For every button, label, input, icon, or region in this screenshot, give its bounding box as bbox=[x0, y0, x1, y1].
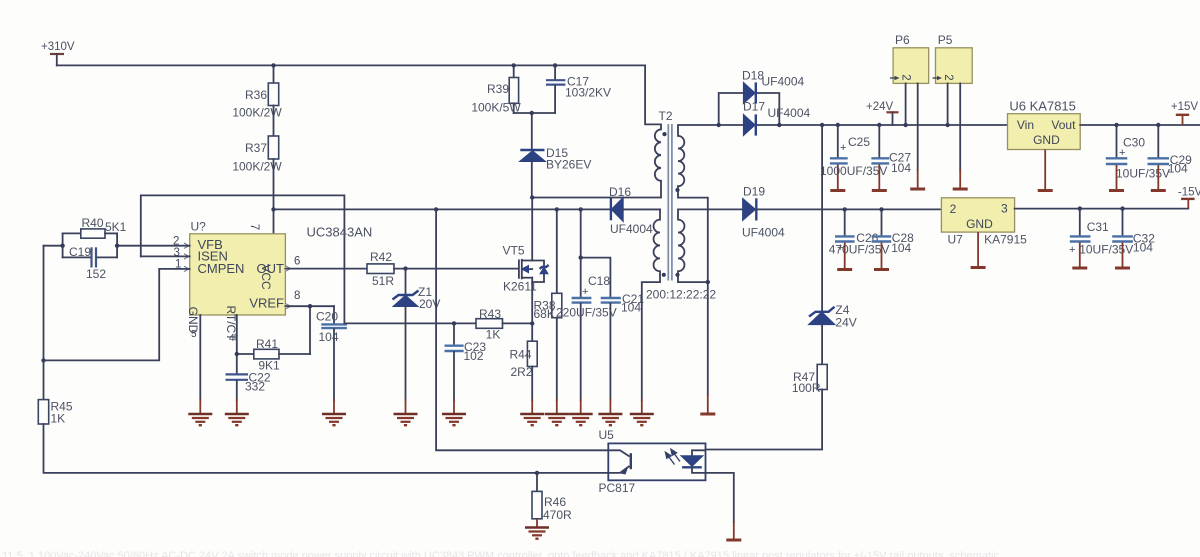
connector P6 bbox=[890, 33, 929, 188]
diode D19 UF4004 bbox=[742, 185, 785, 240]
node rail2-C26 bbox=[843, 207, 847, 211]
svg-text:2: 2 bbox=[942, 74, 954, 80]
wire VT5 source down bbox=[531, 282, 533, 323]
svg-text:R42: R42 bbox=[370, 250, 392, 264]
capacitor C25 electrolytic bbox=[820, 125, 887, 189]
resistor R39 bbox=[471, 65, 521, 114]
node drain-D15 bbox=[530, 195, 534, 199]
svg-text:68K: 68K bbox=[534, 307, 555, 321]
svg-text:C18: C18 bbox=[588, 274, 610, 288]
svg-text:R46: R46 bbox=[544, 495, 566, 509]
svg-text:KA7915: KA7915 bbox=[984, 233, 1027, 247]
wire Z4 to R47 bbox=[821, 325, 823, 365]
svg-text:+24V: +24V bbox=[866, 101, 894, 113]
wire CMPEN pin bbox=[44, 269, 190, 361]
wire VCC rail to D16 bbox=[274, 208, 661, 210]
ground C21 bbox=[598, 414, 622, 425]
svg-text:+15V: +15V bbox=[1171, 101, 1199, 113]
wire left bus bbox=[43, 246, 45, 400]
polarity dot primary bbox=[662, 132, 666, 136]
resistor R41 bbox=[237, 337, 310, 373]
node source-R44 bbox=[530, 321, 534, 325]
node CMPEN-bus bbox=[41, 358, 45, 362]
svg-text:CMPEN: CMPEN bbox=[198, 261, 245, 276]
capacitor C22 bbox=[226, 371, 271, 414]
ground C23 bbox=[442, 414, 466, 425]
svg-text:D16: D16 bbox=[609, 185, 631, 199]
svg-text:7: 7 bbox=[248, 224, 260, 230]
svg-text:100R: 100R bbox=[792, 381, 821, 395]
svg-text:104: 104 bbox=[891, 241, 911, 255]
svg-text:R43: R43 bbox=[479, 307, 501, 321]
wire U5 pin3 to ground bbox=[706, 473, 734, 522]
wire U6 GND lead bbox=[1044, 150, 1046, 190]
svg-text:R41: R41 bbox=[256, 337, 278, 351]
wire ISEN feedback line bbox=[141, 195, 345, 323]
wire OUT pin bbox=[285, 268, 367, 270]
svg-text:102: 102 bbox=[464, 349, 484, 363]
zener Z4 24V bbox=[809, 303, 857, 330]
svg-text:C20: C20 bbox=[316, 310, 338, 324]
wire U5 pin2 line bbox=[607, 472, 609, 474]
svg-text:Vout: Vout bbox=[1051, 118, 1076, 132]
wire Z1 cathode lead bbox=[405, 269, 407, 295]
ground C18 bbox=[569, 414, 593, 425]
diode D17 UF4004 bbox=[743, 99, 811, 135]
winding secondary right-top bbox=[678, 136, 684, 186]
wire R36-R37 bbox=[273, 106, 275, 137]
wire primary top lead bbox=[645, 65, 661, 129]
opto U5 PC817 box bbox=[599, 428, 706, 495]
svg-text:R37: R37 bbox=[245, 141, 267, 155]
capacitor C17 bbox=[546, 65, 611, 113]
wire R36 top lead bbox=[273, 65, 275, 83]
svg-text:1K: 1K bbox=[51, 412, 66, 426]
svg-text:2: 2 bbox=[900, 74, 912, 80]
svg-text:VT5: VT5 bbox=[503, 244, 525, 258]
node network left bbox=[60, 244, 64, 248]
capacitor C18 electrolytic bbox=[556, 209, 617, 413]
svg-text:200:12:22:22: 200:12:22:22 bbox=[646, 288, 716, 302]
wire R47 to U5 pin4 bbox=[706, 390, 823, 450]
wire +310V rail bbox=[57, 64, 645, 66]
node rail-C31 bbox=[1078, 206, 1082, 210]
node rail-P5 bbox=[945, 123, 949, 127]
svg-text:5K1: 5K1 bbox=[105, 220, 127, 234]
node RT/CT-R41 bbox=[235, 352, 239, 356]
svg-text:R40: R40 bbox=[82, 216, 104, 230]
node rail-C17 bbox=[553, 63, 557, 67]
node VREF bbox=[308, 304, 312, 308]
wire D15 cathode lead bbox=[531, 113, 533, 149]
wire VCC to U5 pin1 bbox=[436, 209, 608, 450]
svg-text:VCC: VCC bbox=[259, 264, 273, 290]
svg-text:10UF/35V: 10UF/35V bbox=[1079, 243, 1133, 257]
wire common down to bar bbox=[707, 282, 709, 395]
wire network left vertical bbox=[62, 233, 64, 257]
wire D19 line to U7 bbox=[756, 208, 941, 210]
regulator U6 KA7815 bbox=[1008, 99, 1081, 150]
svg-text:8: 8 bbox=[294, 290, 300, 302]
terminal common bar bbox=[700, 394, 715, 414]
wire D18 branch bbox=[719, 93, 780, 125]
capacitor C31 electrolytic bbox=[1069, 209, 1133, 267]
terminal C29 bar bbox=[1151, 189, 1166, 192]
svg-text:2: 2 bbox=[950, 202, 957, 216]
net label +310V bbox=[41, 41, 75, 65]
svg-text:4: 4 bbox=[229, 333, 235, 344]
wire R37 to VCC node bbox=[273, 159, 275, 234]
svg-text:UF4004: UF4004 bbox=[610, 222, 653, 236]
svg-text:GND: GND bbox=[966, 217, 993, 231]
svg-text:GND: GND bbox=[1033, 133, 1060, 147]
svg-text:C19: C19 bbox=[69, 245, 91, 259]
capacitor C27 bbox=[871, 125, 911, 189]
capacitor C19 bbox=[63, 245, 118, 281]
wire bottom-left bottom lead bbox=[642, 271, 660, 400]
winding bottom-right bbox=[678, 220, 684, 272]
op-amp U? UC3843AN box bbox=[190, 220, 373, 316]
svg-text:104: 104 bbox=[1168, 162, 1188, 176]
resistor R44 bbox=[510, 323, 538, 413]
terminal U6 GND bar bbox=[1038, 189, 1053, 192]
node D18 left bbox=[717, 123, 721, 127]
wire ISEN pin bbox=[141, 255, 190, 257]
svg-text:PC817: PC817 bbox=[599, 481, 636, 495]
svg-text:152: 152 bbox=[86, 267, 106, 281]
svg-text:104: 104 bbox=[891, 161, 911, 175]
svg-text:5: 5 bbox=[191, 329, 197, 340]
resistor R46 bbox=[532, 473, 572, 527]
resistor R45 bbox=[38, 400, 73, 426]
svg-text:100K/2W: 100K/2W bbox=[232, 160, 282, 174]
wire R45 to bottom line bbox=[44, 424, 609, 473]
svg-text:P5: P5 bbox=[938, 33, 953, 47]
capacitor C32 bbox=[1112, 209, 1155, 267]
svg-text:UC3843AN: UC3843AN bbox=[307, 225, 373, 240]
diode D18 UF4004 bbox=[742, 69, 805, 104]
node rail-C30 bbox=[1114, 123, 1118, 127]
svg-text:R44: R44 bbox=[510, 348, 532, 362]
svg-text:R39: R39 bbox=[487, 82, 509, 96]
capacitor C21 bbox=[581, 258, 645, 413]
core T2 bbox=[668, 124, 672, 281]
wire sec-top lead up bbox=[678, 125, 838, 136]
wire D15 anode to drain node bbox=[531, 162, 533, 198]
polarity dot bottom-right bbox=[675, 273, 679, 277]
resistor R42 bbox=[367, 250, 394, 288]
wire VFB pin bbox=[117, 245, 190, 247]
diode D16 UF4004 bbox=[609, 185, 653, 236]
node R46 bbox=[535, 471, 539, 475]
wire network right vertical bbox=[116, 233, 118, 257]
svg-text:C30: C30 bbox=[1123, 136, 1145, 150]
wire R42 to gate bbox=[394, 268, 518, 270]
polarity dot sec-top bbox=[675, 188, 679, 192]
connector P5 bbox=[933, 33, 973, 188]
svg-text:11.5. 1 100Vac-240Vac 50/60Hz: 11.5. 1 100Vac-240Vac 50/60Hz AC-DC 24V … bbox=[2, 550, 999, 557]
wire bus stub to network bbox=[44, 245, 63, 247]
node VCC-U5 vertical bbox=[434, 207, 438, 211]
terminal P6 bar bbox=[910, 188, 925, 191]
zener Z1 20V bbox=[393, 285, 441, 413]
wire +15V rail bbox=[1080, 124, 1200, 126]
wire sec-top bottom lead to common bbox=[678, 186, 708, 282]
polarity dot bottom-left bbox=[662, 273, 666, 277]
node rail-P6 bbox=[903, 123, 907, 127]
wire Z4 lead from +24V bbox=[821, 125, 823, 312]
node rail2-C28 bbox=[879, 207, 883, 211]
svg-text:1K: 1K bbox=[486, 328, 501, 342]
opto transistor side bbox=[608, 450, 631, 474]
svg-text:10UF/35V: 10UF/35V bbox=[1116, 167, 1170, 181]
ground R46 bbox=[525, 528, 549, 539]
terminal C30 bar bbox=[1109, 189, 1124, 192]
node rail-C25 bbox=[836, 123, 840, 127]
ground R38 bbox=[545, 414, 569, 425]
capacitor C29 bbox=[1148, 125, 1193, 189]
svg-text:2R2: 2R2 bbox=[511, 365, 533, 379]
svg-text:U5: U5 bbox=[599, 428, 615, 442]
node snubber-D15 bbox=[530, 111, 534, 115]
capacitor C28 bbox=[872, 209, 915, 268]
ground R44 bbox=[520, 414, 544, 425]
node C18-C21 branch bbox=[579, 255, 583, 259]
resistor R43 bbox=[476, 307, 532, 342]
capacitor C20 bbox=[316, 306, 347, 413]
node rail-C32 bbox=[1120, 206, 1124, 210]
node rail-Z4 bbox=[820, 123, 824, 127]
wire -15V rail bbox=[1015, 208, 1189, 210]
opto light arrows bbox=[666, 449, 681, 464]
svg-text:470UF/35V: 470UF/35V bbox=[829, 243, 890, 257]
wire RT/CT lead bbox=[236, 315, 238, 373]
terminal C31 bar bbox=[1072, 267, 1087, 270]
svg-text:D17: D17 bbox=[743, 99, 765, 113]
net label +15V bbox=[1171, 101, 1199, 125]
node VCC bbox=[271, 207, 275, 211]
wire primary bottom lead bbox=[660, 181, 662, 198]
ground C20 bbox=[322, 414, 346, 425]
node rail-R39 bbox=[512, 63, 516, 67]
terminal C26 bar bbox=[837, 268, 852, 271]
terminal U7 GND bar bbox=[971, 266, 986, 269]
svg-text:D19: D19 bbox=[743, 185, 765, 199]
wire U7 GND lead bbox=[977, 232, 979, 266]
faint cut-off caption at bottom bbox=[2, 550, 999, 557]
svg-text:104: 104 bbox=[621, 301, 641, 315]
ground IC GND bbox=[188, 414, 212, 425]
svg-text:Vin: Vin bbox=[1017, 118, 1034, 132]
svg-text:U?: U? bbox=[191, 220, 207, 234]
wire R41 up to VREF node bbox=[309, 306, 311, 354]
svg-text:104: 104 bbox=[319, 330, 339, 344]
pin arrow OUT bbox=[286, 266, 291, 271]
node sense-C23 bbox=[452, 321, 456, 325]
capacitor C26 electrolytic bbox=[829, 209, 890, 268]
ground Z1 bbox=[394, 414, 418, 425]
pin arrow VREF bbox=[286, 304, 291, 309]
svg-text:+: + bbox=[1069, 244, 1075, 256]
regulator U7 KA7915 bbox=[941, 198, 1027, 247]
svg-text:C25: C25 bbox=[848, 135, 870, 149]
node network right bbox=[115, 244, 119, 248]
pin arrow ISEN bbox=[184, 254, 189, 259]
capacitor C23 bbox=[445, 323, 487, 413]
svg-text:UF4004: UF4004 bbox=[762, 75, 805, 89]
svg-text:R36: R36 bbox=[245, 88, 267, 102]
svg-text:24V: 24V bbox=[835, 316, 856, 330]
svg-text:P6: P6 bbox=[895, 33, 910, 47]
svg-text:1000UF/35V: 1000UF/35V bbox=[820, 164, 887, 178]
terminal C25 bar bbox=[830, 189, 845, 192]
svg-text:3: 3 bbox=[1001, 202, 1008, 216]
wire GND pin lead bbox=[199, 315, 201, 400]
winding bottom-left bbox=[654, 220, 660, 272]
svg-text:C31: C31 bbox=[1087, 220, 1109, 234]
terminal C28 bar bbox=[874, 268, 889, 271]
resistor R36 bbox=[232, 83, 282, 120]
resistor R40 bbox=[63, 216, 127, 238]
resistor R37 bbox=[232, 136, 282, 174]
wire +24V rail to U6 bbox=[838, 124, 1008, 126]
opto LED side bbox=[681, 450, 706, 473]
terminal C32 bar bbox=[1115, 267, 1130, 270]
node D18 right bbox=[777, 123, 781, 127]
svg-text:+: + bbox=[582, 286, 588, 298]
svg-text:BY26EV: BY26EV bbox=[546, 158, 591, 172]
net label +24V bbox=[866, 101, 899, 125]
wire primary-return line drain bbox=[532, 197, 660, 199]
pin arrow CMPEN bbox=[184, 266, 189, 271]
wire snubber bottom bbox=[514, 112, 555, 114]
svg-text:100K/2W: 100K/2W bbox=[232, 106, 282, 120]
pin arrow VFB bbox=[184, 243, 189, 248]
terminal C27 bar bbox=[872, 189, 887, 192]
wire bottom-right winding top lead / D19 line start bbox=[678, 209, 743, 219]
svg-text:UF4004: UF4004 bbox=[742, 226, 785, 240]
svg-text:470R: 470R bbox=[543, 508, 572, 522]
node rail-C29 bbox=[1156, 123, 1160, 127]
node OUT-Z1 bbox=[403, 266, 407, 270]
diode D15 BY26EV bbox=[520, 146, 592, 172]
svg-text:U6 KA7815: U6 KA7815 bbox=[1009, 99, 1076, 114]
terminal P5 bar bbox=[953, 188, 968, 191]
wire VREF pin bbox=[285, 305, 334, 307]
svg-text:-15V: -15V bbox=[1178, 187, 1200, 199]
svg-text:+: + bbox=[840, 142, 846, 154]
node VCC-R38 bbox=[555, 207, 559, 211]
svg-text:220UF/35V: 220UF/35V bbox=[556, 306, 617, 320]
winding primary left-top bbox=[655, 129, 661, 180]
svg-text:+310V: +310V bbox=[41, 41, 75, 53]
svg-text:103/2KV: 103/2KV bbox=[565, 86, 611, 100]
node secondary common bbox=[706, 280, 710, 284]
capacitor C30 electrolytic bbox=[1106, 125, 1170, 189]
ground transformer bbox=[630, 414, 654, 425]
svg-text:VREF: VREF bbox=[249, 296, 284, 311]
svg-text:332: 332 bbox=[245, 380, 265, 394]
net label -15V bbox=[1178, 187, 1200, 209]
svg-text:20V: 20V bbox=[419, 297, 440, 311]
node rail-C27 bbox=[877, 123, 881, 127]
wire sense line bbox=[344, 322, 476, 324]
svg-text:104: 104 bbox=[1133, 241, 1153, 255]
svg-text:UF4004: UF4004 bbox=[768, 106, 811, 120]
transistor VT5 K2611 bbox=[503, 244, 549, 294]
wire VT5 drain up bbox=[531, 198, 533, 261]
wire D16 line to bottom-left winding bbox=[623, 209, 660, 219]
node VCC-C18 bbox=[579, 207, 583, 211]
svg-text:T2: T2 bbox=[659, 109, 673, 123]
node rail-R36 bbox=[271, 63, 275, 67]
resistor R38 bbox=[534, 209, 562, 413]
svg-text:51R: 51R bbox=[372, 274, 394, 288]
terminal U5 pin3 bar bbox=[726, 539, 741, 542]
svg-text:U7: U7 bbox=[948, 233, 964, 247]
wire bottom-right bottom lead bbox=[678, 271, 708, 282]
ground C22 bbox=[225, 414, 249, 425]
svg-text:6: 6 bbox=[294, 256, 300, 268]
resistor R47 bbox=[792, 364, 827, 395]
